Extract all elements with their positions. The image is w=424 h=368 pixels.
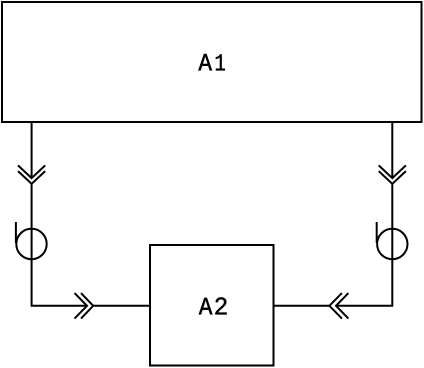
circle symbol left xyxy=(16,229,46,259)
label A2 xyxy=(199,297,227,314)
wire right: arrowhead down through circle, corner, left to chevron xyxy=(336,185,392,306)
wire right: A1 bottom to down-arrowhead xyxy=(391,122,393,178)
arrowhead right down double-chevron xyxy=(379,165,406,183)
wire left: arrowhead down through circle, corner, right to chevron xyxy=(32,185,87,306)
wire right: chevron tip to A2 right port xyxy=(274,305,330,307)
arrowhead left down double-chevron xyxy=(18,165,45,183)
arrowhead right-connector left-pointing double-chevron xyxy=(329,293,348,319)
arrowhead left-connector right-pointing double-chevron xyxy=(75,293,94,319)
block A1 xyxy=(2,2,422,122)
circle tail left xyxy=(15,222,17,243)
circle symbol right xyxy=(377,229,407,259)
block A2 xyxy=(150,245,274,366)
label A1 xyxy=(198,54,224,70)
circle tail right xyxy=(376,222,378,243)
wire left: A1 bottom to down-arrowhead xyxy=(31,122,33,178)
wire left: chevron tip to A2 left port xyxy=(93,305,150,307)
